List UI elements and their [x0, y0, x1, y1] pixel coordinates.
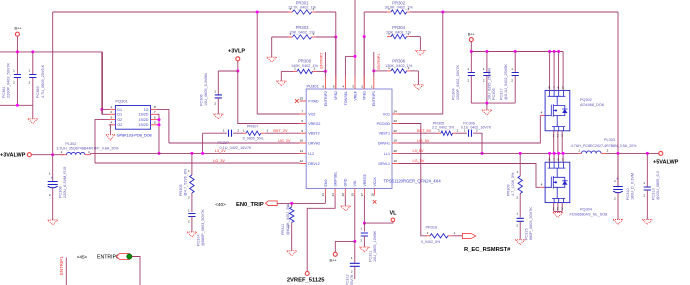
svg-text:PQ301: PQ301: [115, 99, 128, 104]
svg-text:ENTRIP2: ENTRIP2: [324, 91, 328, 106]
svg-text:UG_5V: UG_5V: [417, 139, 430, 143]
svg-text:TPS51120RGER_QFN24_4X4: TPS51120RGER_QFN24_4X4: [384, 179, 442, 184]
svg-text:GND: GND: [344, 178, 348, 186]
svg-text:1S/2D: 1S/2D: [139, 118, 149, 122]
svg-text:PC306: PC306: [199, 94, 203, 106]
svg-text:ENTRIP1: ENTRIP1: [59, 256, 64, 275]
svg-text:10U_0805_6.3V6M: 10U_0805_6.3V6M: [204, 73, 208, 106]
svg-text:PC310: PC310: [626, 188, 630, 200]
svg-text:@0.1U_0402_25V6K: @0.1U_0402_25V6K: [504, 64, 508, 100]
svg-text:19: 19: [394, 139, 398, 143]
svg-text:PR301: PR301: [296, 0, 309, 5]
svg-text:25: 25: [300, 97, 304, 101]
svg-text:VL: VL: [389, 211, 397, 217]
svg-text:VBST2: VBST2: [308, 132, 319, 136]
svg-text:VIN: VIN: [353, 180, 357, 186]
svg-text:B++: B++: [15, 27, 23, 31]
svg-text:4.7U_0805_25V6.K: 4.7U_0805_25V6.K: [41, 64, 45, 98]
svg-text:PC312: PC312: [346, 274, 350, 285]
svg-text:EN0_TRIP: EN0_TRIP: [236, 202, 264, 208]
svg-text:11: 11: [300, 149, 303, 153]
svg-text:PC311: PC311: [369, 251, 373, 262]
svg-text:ENTRIP1: ENTRIP1: [377, 53, 381, 69]
svg-text:VO1: VO1: [383, 112, 390, 116]
svg-text:PR307: PR307: [247, 124, 259, 128]
svg-text:16: 16: [300, 139, 304, 143]
svg-text:FDS6680AS_NL_SO8: FDS6680AS_NL_SO8: [570, 213, 608, 217]
svg-text:VO2: VO2: [308, 112, 315, 116]
svg-text:10U_0805_10V6K: 10U_0805_10V6K: [373, 230, 377, 262]
svg-text:<40>: <40>: [215, 202, 226, 207]
svg-text:14: 14: [331, 193, 335, 197]
svg-text:+5VALWP: +5VALWP: [653, 160, 679, 166]
svg-text:EN0: EN0: [324, 180, 328, 187]
svg-text:BST_2V: BST_2V: [273, 129, 288, 133]
svg-text:G2: G2: [117, 123, 122, 127]
svg-text:VFB2: VFB2: [334, 91, 338, 100]
svg-text:PR309: PR309: [506, 184, 510, 196]
svg-text:L3_2V: L3_2V: [215, 149, 226, 153]
svg-text:PC304: PC304: [452, 88, 456, 100]
svg-text:VREF: VREF: [353, 90, 357, 100]
svg-text:P PAD: P PAD: [308, 99, 319, 103]
svg-text:15: 15: [351, 193, 355, 197]
svg-text:UG_2V: UG_2V: [278, 139, 291, 143]
svg-text:PR311: PR311: [281, 224, 285, 235]
svg-text:10U_6295_25V6M: 10U_6295_25V6M: [488, 68, 492, 100]
svg-text:PC314: PC314: [197, 234, 201, 246]
svg-text:@22U_0805_6.3: @22U_0805_6.3: [656, 171, 660, 200]
svg-text:12: 12: [300, 159, 304, 163]
svg-text:L3_5V: L3_5V: [413, 149, 424, 153]
svg-text:180U_D_6.3VM: 180U_D_6.3VM: [631, 173, 635, 200]
svg-text:17: 17: [360, 193, 364, 197]
svg-text:PQ302: PQ302: [580, 98, 592, 102]
svg-text:PQ304: PQ304: [580, 208, 592, 212]
svg-text:20K_0402_1%: 20K_0402_1%: [290, 30, 316, 34]
svg-text:PR308: PR308: [298, 59, 311, 64]
svg-text:PGOOD: PGOOD: [377, 122, 391, 126]
svg-text:0_0805_5%L: 0_0805_5%L: [243, 136, 264, 140]
svg-text:VREG5: VREG5: [363, 174, 367, 186]
svg-text:TONSEL: TONSEL: [344, 91, 348, 105]
svg-text:BST_5V: BST_5V: [417, 129, 432, 133]
svg-text:13: 13: [394, 159, 398, 163]
svg-text:PC381: PC381: [2, 86, 6, 98]
svg-text:PR303: PR303: [296, 25, 309, 30]
svg-text:VREG2: VREG2: [308, 122, 320, 126]
svg-text:ENTRIP0: ENTRIP0: [97, 255, 119, 261]
svg-text:PL303: PL303: [604, 138, 615, 142]
svg-text:D1: D1: [117, 108, 122, 112]
svg-text:1S/2D: 1S/2D: [139, 113, 149, 117]
svg-text:680P_0603_50V7K: 680P_0603_50V7K: [529, 207, 533, 240]
svg-text:4.7_1206_5%: 4.7_1206_5%: [511, 172, 515, 196]
svg-text:1S/2D: 1S/2D: [139, 123, 149, 127]
svg-text:DRVL2: DRVL2: [308, 162, 320, 166]
svg-text:DRVL1: DRVL1: [378, 162, 390, 166]
svg-text:18: 18: [370, 193, 374, 197]
svg-text:PC315: PC315: [524, 228, 528, 240]
svg-text:LL1: LL1: [384, 152, 390, 156]
svg-text:2VREF_51125: 2VREF_51125: [287, 278, 325, 284]
svg-text:PR306: PR306: [392, 59, 405, 64]
svg-text:4.7UH_PC8EC2027-4R7B8N_0.5A_20: 4.7UH_PC8EC2027-4R7B8N_0.5A_20%: [571, 144, 637, 148]
svg-text:ENTRIP1: ENTRIP1: [372, 91, 376, 106]
svg-text:G2: G2: [117, 118, 122, 122]
svg-text:VBST1: VBST1: [379, 132, 390, 136]
svg-text:@680P_0603_50V7K: @680P_0603_50V7K: [201, 209, 205, 246]
svg-text:PR304: PR304: [392, 25, 405, 30]
svg-text:PR305: PR305: [179, 184, 183, 196]
svg-text:20: 20: [394, 149, 398, 153]
svg-text:D1: D1: [117, 113, 122, 117]
svg-text:2200P_0402_50V7K: 2200P_0402_50V7K: [7, 62, 11, 98]
svg-text:LL2: LL2: [308, 152, 314, 156]
svg-text:PR302: PR302: [392, 0, 405, 5]
svg-text:R_EC_RSMRST#: R_EC_RSMRST#: [464, 247, 511, 253]
svg-text:VCLK: VCLK: [373, 177, 377, 187]
svg-text:@4.7_5296_8%: @4.7_5296_8%: [184, 168, 188, 196]
svg-text:AO4468_DO8: AO4468_DO8: [580, 103, 604, 107]
svg-text:PC313: PC313: [652, 188, 656, 200]
svg-text:2200P_0402_50V7K: 2200P_0402_50V7K: [456, 64, 460, 100]
svg-text:ENTRIP2: ENTRIP2: [320, 52, 324, 68]
svg-text:B++: B++: [330, 259, 338, 263]
svg-text:VFB1: VFB1: [363, 91, 367, 100]
svg-text:GP8K103-PD8_DO8: GP8K103-PD8_DO8: [117, 134, 152, 138]
svg-text:<45>: <45>: [77, 255, 88, 260]
svg-text:PL302: PL302: [65, 142, 76, 146]
svg-text:SKIPSEL: SKIPSEL: [334, 172, 338, 187]
svg-text:LG_5V: LG_5V: [413, 159, 425, 163]
svg-text:PU301: PU301: [307, 84, 320, 89]
svg-text:1G: 1G: [144, 108, 149, 112]
svg-text:LG_3V: LG_3V: [213, 159, 225, 163]
svg-text:PC383: PC383: [36, 86, 40, 98]
svg-text:10U_0805_25V7K: 10U_0805_25V7K: [350, 274, 354, 285]
svg-text:+3VALWP: +3VALWP: [0, 153, 26, 159]
svg-text:B++: B++: [468, 32, 476, 36]
svg-text:PC305: PC305: [492, 88, 496, 100]
svg-text:220U_6.3VM_R15: 220U_6.3VM_R15: [63, 167, 67, 198]
svg-text:PC308: PC308: [59, 186, 63, 198]
svg-text:2.2_0402_5%: 2.2_0402_5%: [432, 125, 455, 129]
svg-text:PC317: PC317: [500, 88, 504, 100]
svg-text:23: 23: [394, 119, 398, 123]
svg-text:DRVH1: DRVH1: [378, 141, 390, 145]
svg-text:0_0402_5%: 0_0402_5%: [421, 240, 441, 244]
svg-text:10: 10: [341, 193, 345, 197]
svg-text:22: 22: [394, 129, 398, 133]
svg-text:PR318: PR318: [426, 225, 438, 229]
svg-text:13: 13: [321, 193, 325, 197]
svg-text:DRVH2: DRVH2: [308, 141, 320, 145]
svg-text:@820K_0402_5%: @820K_0402_5%: [286, 203, 290, 235]
svg-text:+3VLP: +3VLP: [228, 49, 245, 55]
svg-text:24: 24: [394, 110, 398, 114]
